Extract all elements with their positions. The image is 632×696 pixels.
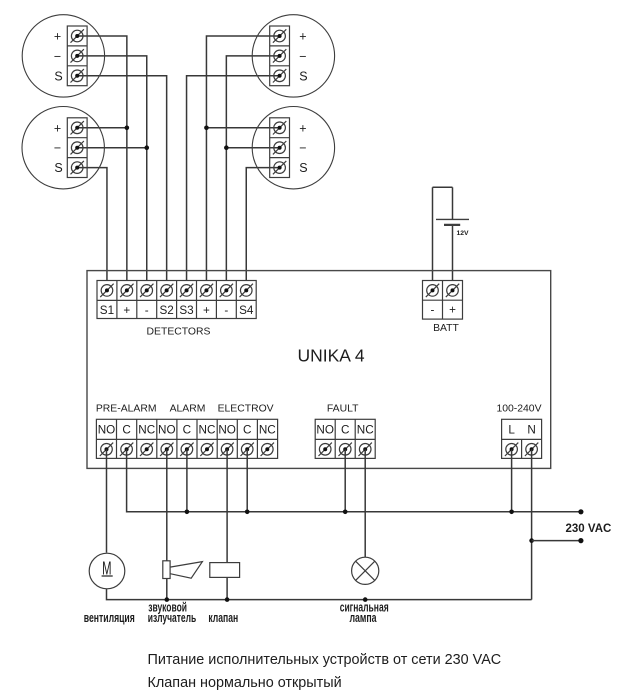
junction L on phase bus xyxy=(509,510,514,515)
mains input block 100-240V xyxy=(502,419,542,458)
detector D4 (bottom-right) xyxy=(252,107,334,189)
sounder LS1 (horn) xyxy=(163,561,203,579)
detector D1 (top-left) xyxy=(22,15,104,97)
svg-text:-: - xyxy=(145,304,149,317)
battery BT1 long plate xyxy=(436,218,469,220)
svg-text:+: + xyxy=(299,121,306,135)
svg-text:-: - xyxy=(431,304,435,317)
wire ELECTROV C to phase bus xyxy=(246,449,248,512)
wire D1 + to vertical column xyxy=(77,36,127,290)
terminal screws S1..S4 row xyxy=(100,284,113,297)
svg-text:S: S xyxy=(299,161,307,175)
wire FAULT C to phase bus xyxy=(344,449,346,512)
terminal screw BATT + xyxy=(446,284,459,297)
svg-text:C: C xyxy=(243,424,251,437)
screw L xyxy=(505,443,518,456)
wire D2 - to vertical column xyxy=(226,56,279,291)
wire D2 + to vertical column xyxy=(206,36,279,290)
wire D4 S to terminal S4 xyxy=(246,168,279,291)
svg-text:12V: 12V xyxy=(457,230,470,237)
svg-text:Клапан нормально открытый: Клапан нормально открытый xyxy=(148,675,342,691)
motor M (ventilation fan) xyxy=(89,553,125,589)
return rail N xyxy=(107,589,532,600)
wire D4 + joining + column xyxy=(206,127,279,129)
svg-text:NC: NC xyxy=(259,424,276,437)
svg-text:излучатель: излучатель xyxy=(148,610,197,625)
svg-text:S: S xyxy=(299,69,307,83)
svg-text:S4: S4 xyxy=(239,304,254,317)
wire PRE-ALARM C to phase bus xyxy=(127,449,581,512)
battery BT1 top link xyxy=(433,186,453,188)
svg-text:NO: NO xyxy=(98,424,116,437)
svg-text:UNIKA 4: UNIKA 4 xyxy=(297,346,364,366)
wire ALARM NO to sounder xyxy=(166,449,168,600)
junction valve on rail xyxy=(225,597,230,602)
svg-text:DETECTORS: DETECTORS xyxy=(147,327,211,338)
svg-text:NC: NC xyxy=(357,424,374,437)
svg-text:NC: NC xyxy=(138,424,155,437)
junction lamp on rail xyxy=(363,597,368,602)
svg-text:лампа: лампа xyxy=(349,610,377,625)
screws FAULT xyxy=(319,443,332,456)
junction D4 - xyxy=(224,145,229,150)
svg-text:+: + xyxy=(449,304,456,317)
svg-text:+: + xyxy=(54,30,61,44)
wire D3 S to terminal S1 xyxy=(77,168,107,291)
svg-text:клапан: клапан xyxy=(208,610,238,625)
terminal block BATT xyxy=(423,281,463,320)
svg-text:BATT: BATT xyxy=(433,323,459,334)
svg-text:ELECTROV: ELECTROV xyxy=(218,403,274,414)
svg-text:NC: NC xyxy=(199,424,216,437)
svg-text:NO: NO xyxy=(158,424,176,437)
junction ELECTROV C xyxy=(245,510,250,515)
wire D1 S to terminal S2 xyxy=(77,76,166,291)
svg-text:S: S xyxy=(54,69,62,83)
svg-text:N: N xyxy=(527,424,535,437)
svg-text:S2: S2 xyxy=(160,304,174,317)
svg-text:FAULT: FAULT xyxy=(327,403,359,414)
screw N xyxy=(525,443,538,456)
mains stub 230VAC upper xyxy=(532,540,581,542)
svg-text:C: C xyxy=(122,424,130,437)
svg-text:−: − xyxy=(54,49,61,63)
svg-text:C: C xyxy=(183,424,191,437)
wire ALARM C to phase bus xyxy=(186,449,188,512)
svg-text:−: − xyxy=(299,141,306,155)
detector D2 (top-right) xyxy=(252,15,334,97)
wire D4 - joining - column xyxy=(226,147,279,149)
junction sounder on rail xyxy=(165,597,170,602)
svg-text:вентиляция: вентиляция xyxy=(84,610,135,625)
mains feed dot lower xyxy=(578,538,583,543)
svg-text:NO: NO xyxy=(316,424,334,437)
junction D3 + xyxy=(125,126,130,131)
wire ELECTROV NO to valve xyxy=(226,449,228,600)
svg-text:C: C xyxy=(341,424,349,437)
svg-text:ALARM: ALARM xyxy=(170,403,206,414)
svg-text:−: − xyxy=(54,141,61,155)
junction D3 - xyxy=(144,145,149,150)
mains feed dot upper xyxy=(578,509,583,514)
svg-text:S1: S1 xyxy=(100,304,114,317)
wire D3 - joining - column xyxy=(77,147,147,149)
wire D2 S to terminal S3 xyxy=(187,76,280,291)
terminal screw BATT - xyxy=(426,284,439,297)
svg-text:S: S xyxy=(54,161,62,175)
svg-text:PRE-ALARM: PRE-ALARM xyxy=(96,403,157,414)
valve Y1 (solenoid) xyxy=(210,563,240,578)
wire N down to return rail xyxy=(531,449,533,599)
screws PRE-ALARM/ALARM/ELECTROV xyxy=(100,443,113,456)
junction D4 + xyxy=(204,126,209,131)
wire PRE-ALARM NO to motor xyxy=(106,449,108,552)
junction N stub xyxy=(529,538,534,543)
svg-text:S3: S3 xyxy=(179,304,193,317)
signal lamp HL1 xyxy=(352,557,379,584)
svg-text:+: + xyxy=(203,304,210,317)
svg-text:+: + xyxy=(123,304,130,317)
battery BT1 short plate xyxy=(444,224,460,226)
junction FAULT C xyxy=(343,510,348,515)
detector D3 (bottom-left) xyxy=(22,107,104,189)
svg-text:L: L xyxy=(508,424,515,437)
svg-text:-: - xyxy=(224,304,228,317)
terminal block DETECTORS xyxy=(97,281,256,319)
wire D3 + joining + column xyxy=(77,127,127,129)
svg-text:−: − xyxy=(299,49,306,63)
svg-text:230 VAC: 230 VAC xyxy=(566,523,612,535)
junction ALARM C xyxy=(185,510,190,515)
svg-text:100-240V: 100-240V xyxy=(496,403,541,414)
control panel UNIKA 4 outline xyxy=(87,271,551,469)
battery BT1 wire + upper leg xyxy=(452,187,454,219)
wire D1 - to vertical column xyxy=(77,56,147,291)
wire FAULT NC to lamp xyxy=(364,449,366,557)
svg-text:Питание исполнительных устройс: Питание исполнительных устройств от сети… xyxy=(148,652,502,668)
relay output block FAULT xyxy=(315,419,375,458)
battery BT1 wire + lower leg xyxy=(452,225,454,291)
relay output block PRE-ALARM / ALARM / ELECTROV xyxy=(96,419,277,458)
svg-text:+: + xyxy=(54,121,61,135)
svg-text:NO: NO xyxy=(218,424,236,437)
battery BT1 wire - (left leg) xyxy=(432,187,434,290)
wire L to phase bus xyxy=(511,449,513,512)
svg-text:+: + xyxy=(299,30,306,44)
